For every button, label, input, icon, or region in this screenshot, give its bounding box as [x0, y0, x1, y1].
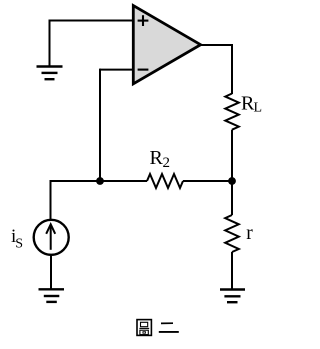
resistor RL: [225, 94, 239, 130]
wire: left vertical down to top-left ground: [49, 20, 51, 67]
current source arrow: [46, 224, 55, 250]
svg-text:r: r: [246, 223, 253, 244]
op-amp U1: [133, 6, 200, 84]
svg-text:2: 2: [163, 155, 171, 171]
ground (bottom-right): [220, 290, 245, 303]
node A junction dot: [96, 177, 104, 185]
resistor r: [225, 215, 239, 252]
wire: +input horizontal from left ground branch to op-amp: [50, 20, 134, 22]
wire: resistor r to bottom-right ground: [231, 252, 233, 289]
wire: op-amp output horizontal: [200, 44, 232, 46]
wire: RL bottom to node B: [231, 130, 233, 181]
wire: feedback vertical from -input down to node A: [99, 69, 101, 181]
svg-text:L: L: [254, 100, 263, 115]
wire: node B down to resistor r: [231, 181, 233, 215]
wire: main horizontal net (node A row) left segment: [51, 180, 148, 182]
wire: left branch down to current source: [50, 180, 52, 219]
current source iS: [34, 220, 69, 255]
caption: character 二 (drawn): [159, 323, 179, 332]
ground (top-left): [37, 67, 63, 80]
op-amp + symbol: [138, 15, 149, 26]
svg-text:R: R: [150, 147, 164, 169]
wire: -input horizontal: [100, 69, 133, 71]
node B junction dot: [228, 177, 236, 185]
svg-text:S: S: [15, 237, 23, 252]
wire: current source to bottom-left ground: [50, 255, 52, 289]
caption: character 圖 (drawn): [137, 320, 151, 336]
op-amp - symbol: [138, 69, 149, 71]
wire: horizontal net right segment: [183, 180, 232, 182]
resistor R2: [147, 174, 183, 188]
ground (bottom-left): [39, 289, 65, 302]
wire: output vertical down to RL: [231, 44, 233, 94]
